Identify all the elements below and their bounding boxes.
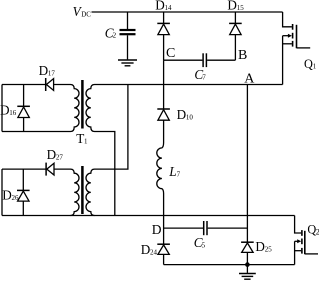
svg-text:D: D	[0, 102, 10, 117]
label D27	[47, 147, 64, 162]
transformer T1 upper core	[81, 80, 84, 129]
wire node C to C7	[164, 59, 203, 61]
diode D27	[46, 163, 70, 176]
svg-text:2: 2	[316, 228, 319, 237]
capacitor C7	[203, 53, 206, 67]
svg-text:24: 24	[150, 249, 158, 257]
diode D15	[229, 12, 242, 60]
svg-text:5: 5	[202, 241, 206, 249]
wire C5 to D25 branch	[208, 227, 248, 229]
svg-text:C: C	[166, 46, 175, 61]
svg-text:D: D	[177, 107, 187, 122]
label Q2	[307, 223, 319, 237]
wire left vertical upper loop	[1, 85, 3, 132]
svg-text:DC: DC	[81, 10, 91, 18]
svg-text:7: 7	[202, 73, 206, 81]
transistor Q2	[295, 216, 318, 265]
wire bottom (D24 to Q2 source)	[164, 264, 295, 266]
transformer T1 lower core	[81, 166, 84, 214]
wire C7 to node B	[207, 59, 235, 61]
svg-text:2: 2	[113, 32, 117, 40]
svg-text:D: D	[141, 242, 151, 257]
wire output bus	[2, 215, 295, 217]
svg-text:L: L	[168, 164, 176, 179]
label C7	[194, 67, 206, 82]
svg-text:25: 25	[265, 246, 273, 254]
svg-text:16: 16	[9, 109, 16, 117]
svg-text:D: D	[39, 63, 49, 78]
transformer T1 lower secondary winding	[86, 169, 95, 215]
transformer T1 lower primary winding	[71, 169, 80, 215]
wire node A bus	[95, 84, 283, 86]
wire upper secondary bottom to bus	[95, 132, 115, 216]
wire upper loop bottom	[2, 131, 71, 133]
ground (under C2)	[118, 60, 137, 66]
label D25	[255, 239, 272, 254]
diode D17	[46, 78, 71, 91]
label D15	[227, 0, 244, 13]
label D10	[177, 107, 194, 122]
label D16	[0, 102, 17, 117]
diode D26	[17, 169, 30, 215]
inductor L7	[157, 143, 164, 194]
svg-text:7: 7	[177, 170, 181, 178]
node VDC label	[73, 4, 92, 19]
svg-text:Q: Q	[304, 57, 313, 71]
svg-text:10: 10	[186, 114, 194, 122]
transistor Q1	[283, 12, 311, 85]
capacitor C5	[204, 221, 207, 235]
wire node D to C5	[164, 227, 203, 229]
capacitor C2	[120, 12, 136, 59]
svg-text:26: 26	[12, 194, 20, 202]
label D24	[141, 242, 158, 257]
label C2	[105, 25, 117, 40]
svg-text:D: D	[2, 187, 12, 202]
wire top rail	[92, 11, 283, 13]
junction node dot	[245, 262, 250, 267]
label D17	[39, 63, 56, 78]
svg-text:D: D	[47, 147, 57, 162]
diode D25	[241, 85, 254, 265]
svg-text:15: 15	[237, 4, 245, 12]
ground (bottom)	[239, 265, 256, 280]
transformer T1 upper primary winding	[71, 85, 80, 132]
wire L7 down to node D	[163, 194, 165, 229]
svg-text:D: D	[227, 0, 237, 13]
diode D14	[157, 12, 170, 60]
wire left primary top (upper loop)	[2, 84, 46, 86]
svg-text:D: D	[255, 239, 265, 254]
svg-text:1: 1	[84, 138, 88, 146]
svg-text:D: D	[152, 222, 162, 237]
wire left vertical lower loop	[1, 169, 3, 215]
wire lower secondary top to node A	[95, 85, 128, 170]
label D14	[155, 0, 172, 13]
diode D10	[157, 60, 170, 142]
wire left primary top (lower loop)	[2, 168, 46, 170]
label Q1	[304, 57, 317, 71]
diode D24	[157, 228, 170, 265]
svg-text:B: B	[238, 48, 247, 63]
svg-text:14: 14	[165, 4, 173, 12]
label T1	[76, 131, 88, 146]
diode D16	[17, 85, 30, 132]
svg-text:17: 17	[48, 70, 56, 78]
label D26	[2, 187, 19, 202]
label C5	[194, 235, 206, 250]
svg-text:1: 1	[313, 63, 317, 71]
svg-text:D: D	[155, 0, 165, 13]
transformer T1 upper secondary winding	[86, 85, 95, 132]
svg-text:27: 27	[56, 153, 64, 161]
label L7	[168, 164, 180, 179]
